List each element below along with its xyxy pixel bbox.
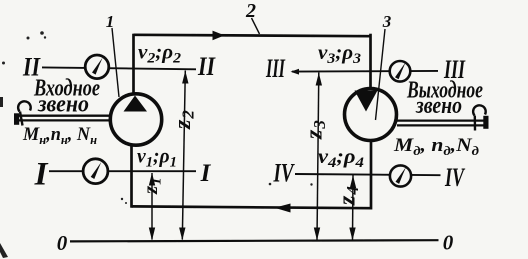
dimension z2 line: [179, 71, 188, 241]
wire: left riser from pump to bottom pipe: [130, 144, 133, 208]
datum line 0-0: [70, 240, 439, 241]
section line I-I: [49, 170, 196, 172]
svg-text:IV: IV: [444, 163, 466, 192]
motor triangle: [355, 91, 378, 112]
dimension z4 line: [349, 175, 356, 240]
output shaft end cap: [483, 116, 488, 129]
svg-text:Мн,nн, Nн: Мн,nн, Nн: [22, 124, 97, 147]
flow arrow on top pipe: [213, 31, 225, 41]
pipe: bottom return line: [132, 206, 372, 208]
section line III-III: [291, 69, 439, 75]
scan specks: [0, 31, 313, 258]
dimension z1 line: [149, 173, 155, 241]
input shaft end cap: [14, 113, 19, 125]
input rotation arrow: [18, 101, 31, 125]
svg-text:0: 0: [57, 231, 68, 255]
svg-text:I: I: [34, 157, 49, 193]
output shaft: [397, 121, 489, 126]
leader line of label 2: [252, 18, 260, 34]
pipe 2: top pressure line: [134, 35, 371, 36]
flow arrow on bottom pipe: [275, 204, 291, 213]
gauge at section III: [390, 61, 411, 82]
section line II-II: [42, 67, 196, 69]
gauge at section IV: [390, 165, 411, 186]
svg-text:3: 3: [382, 12, 392, 31]
section line IV-IV: [295, 174, 441, 175]
svg-text:1: 1: [106, 12, 115, 31]
hydromotor circle 3: [345, 89, 397, 141]
svg-text:II: II: [197, 52, 216, 81]
svg-text:звено: звено: [37, 92, 89, 118]
dimension z3 line: [314, 73, 322, 241]
gauge at section I: [83, 159, 108, 184]
svg-text:0: 0: [443, 231, 454, 255]
output rotation arrow: [473, 105, 486, 130]
leader line of label 3: [376, 29, 386, 120]
pump triangle: [124, 96, 148, 112]
wire: right riser from top pipe to motor: [369, 34, 372, 88]
wire: right riser from bottom pipe to motor: [370, 141, 373, 210]
leader line of label 1: [112, 28, 119, 97]
svg-text:I: I: [200, 160, 212, 187]
svg-text:звено: звено: [415, 93, 462, 119]
input shaft: [15, 116, 110, 121]
svg-text:Мд, nд,Nд: Мд, nд,Nд: [393, 135, 480, 158]
gauge at section II: [85, 55, 109, 79]
wire: left riser from pump to top pipe: [132, 34, 135, 93]
svg-text:III: III: [265, 54, 285, 83]
pump circle 1: [110, 94, 161, 145]
svg-text:2: 2: [245, 0, 256, 22]
svg-text:IV: IV: [273, 159, 296, 188]
